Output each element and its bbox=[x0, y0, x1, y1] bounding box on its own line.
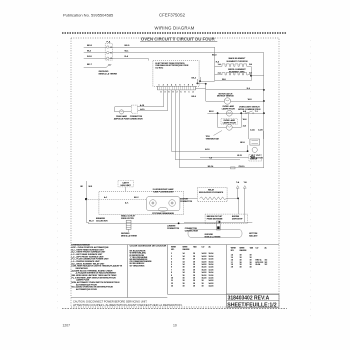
svg-text:1: 1 bbox=[189, 92, 190, 94]
svg-text:CONNECTEUR: CONNECTEUR bbox=[185, 231, 199, 233]
svg-text:2: 2 bbox=[171, 256, 172, 258]
svg-text:16: 16 bbox=[183, 267, 185, 269]
svg-text:BK-7: BK-7 bbox=[87, 64, 93, 66]
svg-text:14-18: 14-18 bbox=[202, 272, 207, 274]
svg-text:11: 11 bbox=[171, 280, 173, 282]
svg-text:18: 18 bbox=[193, 256, 195, 258]
svg-text:18: 18 bbox=[193, 253, 195, 255]
svg-text:GY GRAY/GRIS: GY GRAY/GRIS bbox=[130, 264, 145, 267]
svg-text:10-14: 10-14 bbox=[209, 256, 214, 258]
svg-text:18: 18 bbox=[193, 261, 195, 263]
svg-text:7: 7 bbox=[184, 84, 185, 86]
svg-text:LAMPE FOUR: LAMPE FOUR bbox=[222, 107, 236, 110]
svg-text:1207: 1207 bbox=[63, 323, 71, 327]
svg-text:P-A: P-A bbox=[107, 41, 111, 44]
svg-text:18: 18 bbox=[193, 272, 195, 274]
svg-text:OVEN CIRCUIT // CIRCUIT DU FOU: OVEN CIRCUIT // CIRCUIT DU FOUR bbox=[141, 36, 216, 41]
svg-text:A.T.: A.T. bbox=[125, 201, 129, 204]
svg-text:BK-5: BK-5 bbox=[125, 45, 131, 47]
svg-text:3: 3 bbox=[167, 84, 168, 86]
svg-text:10: 10 bbox=[171, 278, 173, 280]
svg-text:9: 9 bbox=[173, 92, 174, 94]
svg-text:14-18: 14-18 bbox=[202, 264, 207, 266]
svg-text:BALLAST: BALLAST bbox=[249, 234, 258, 237]
svg-text:10-14: 10-14 bbox=[209, 261, 214, 263]
svg-text:1: 1 bbox=[159, 84, 160, 86]
svg-text:14-18: 14-18 bbox=[202, 253, 207, 255]
svg-text:BAKE ELEMENT: BAKE ELEMENT bbox=[229, 57, 246, 60]
svg-text:18: 18 bbox=[240, 267, 242, 269]
svg-text:18: 18 bbox=[250, 267, 252, 269]
svg-text:14-18: 14-18 bbox=[202, 261, 207, 263]
svg-text:AL: AL bbox=[209, 246, 211, 249]
svg-text:18: 18 bbox=[193, 275, 195, 277]
svg-text:10-14: 10-14 bbox=[209, 253, 214, 255]
svg-text:12-16: 12-16 bbox=[209, 275, 214, 277]
svg-text:AL: AL bbox=[265, 247, 267, 250]
svg-text:16-18: 16-18 bbox=[202, 267, 207, 269]
svg-text:MISE A LA TERRE: MISE A LA TERRE bbox=[99, 73, 118, 76]
svg-text:5: 5 bbox=[171, 264, 172, 266]
svg-text:18: 18 bbox=[183, 286, 185, 288]
svg-text:18: 18 bbox=[183, 280, 185, 282]
svg-text:8: 8 bbox=[188, 84, 189, 86]
svg-text:14-18: 14-18 bbox=[209, 280, 214, 282]
svg-text:AMPOULE FOUR: AMPOULE FOUR bbox=[114, 118, 130, 121]
svg-text:2: 2 bbox=[177, 92, 178, 94]
svg-text:NO.: NO. bbox=[171, 249, 175, 251]
svg-text:TUBE FLUORESCENT: TUBE FLUORESCENT bbox=[153, 192, 175, 194]
svg-text:14: 14 bbox=[183, 261, 185, 263]
svg-text:HIGH LIMIT: HIGH LIMIT bbox=[121, 185, 132, 187]
svg-text:CFEF3750S2: CFEF3750S2 bbox=[159, 12, 186, 17]
svg-text:9: 9 bbox=[171, 275, 172, 277]
svg-text:THERMOSTAT: THERMOSTAT bbox=[206, 137, 220, 140]
svg-text:16-18: 16-18 bbox=[202, 275, 207, 277]
svg-text:L1: L1 bbox=[110, 47, 112, 49]
svg-text:GAUGE: GAUGE bbox=[183, 248, 191, 251]
svg-text:8: 8 bbox=[185, 92, 186, 94]
svg-text:10-14: 10-14 bbox=[209, 264, 214, 266]
svg-text:12-16: 12-16 bbox=[209, 267, 214, 269]
svg-text:10: 10 bbox=[173, 323, 177, 327]
svg-text:05.04: 05.04 bbox=[256, 264, 261, 266]
svg-text:6: 6 bbox=[169, 92, 170, 94]
svg-text:1/2: 1/2 bbox=[265, 264, 268, 266]
svg-text:4: 4 bbox=[171, 261, 172, 263]
svg-text:PRISE MOYENNE: PRISE MOYENNE bbox=[207, 219, 223, 221]
svg-text:DU EOC: DU EOC bbox=[155, 68, 163, 70]
svg-text:18: 18 bbox=[183, 283, 185, 285]
svg-text:R-10: R-10 bbox=[87, 56, 93, 58]
svg-text:BK-14: BK-14 bbox=[208, 166, 214, 168]
svg-text:LAMPE FOUR: LAMPE FOUR bbox=[223, 122, 237, 125]
svg-text:16: 16 bbox=[183, 259, 185, 261]
svg-text:ELEMENT CUISSON: ELEMENT CUISSON bbox=[227, 61, 248, 63]
svg-text:1: 1 bbox=[171, 253, 172, 255]
svg-text:16-18: 16-18 bbox=[202, 259, 207, 261]
svg-text:16: 16 bbox=[183, 269, 185, 271]
svg-text:18: 18 bbox=[193, 278, 195, 280]
svg-text:ATTENTION:COUPEZ L'ALIMENTATIO: ATTENTION:COUPEZ L'ALIMENTATION AVANT D'… bbox=[73, 303, 183, 307]
svg-text:CONNECTEUR: CONNECTEUR bbox=[129, 119, 143, 121]
svg-text:6: 6 bbox=[180, 84, 181, 86]
svg-text:318403402 REV:A: 318403402 REV:A bbox=[228, 296, 270, 302]
svg-text:14: 14 bbox=[183, 256, 185, 258]
svg-text:12-16: 12-16 bbox=[209, 269, 214, 271]
svg-text:CONNECTOR: CONNECTOR bbox=[180, 201, 193, 203]
svg-text:SHEET/FEUILLE:1/2: SHEET/FEUILLE:1/2 bbox=[227, 302, 276, 308]
svg-text:DISPOSITIF: DISPOSITIF bbox=[232, 219, 243, 221]
svg-text:10-14: 10-14 bbox=[209, 272, 214, 274]
svg-text:16-18: 16-18 bbox=[202, 269, 207, 271]
svg-text:7: 7 bbox=[171, 269, 172, 271]
svg-text:18: 18 bbox=[202, 286, 204, 288]
svg-text:MISE A LA TERRE: MISE A LA TERRE bbox=[205, 236, 222, 239]
svg-text:18: 18 bbox=[193, 259, 195, 261]
svg-text:19: 19 bbox=[231, 267, 233, 269]
svg-text:3: 3 bbox=[171, 259, 172, 261]
svg-text:18: 18 bbox=[193, 269, 195, 271]
svg-text:12-16: 12-16 bbox=[209, 259, 214, 261]
svg-text:18: 18 bbox=[193, 264, 195, 266]
svg-text:12-16: 12-16 bbox=[209, 278, 214, 280]
svg-text:5: 5 bbox=[181, 92, 182, 94]
svg-text:AUTOMATIQUE FOUR: AUTOMATIQUE FOUR bbox=[75, 288, 98, 291]
svg-text:18: 18 bbox=[193, 267, 195, 269]
svg-text:MOTEUR VERROU: MOTEUR VERROU bbox=[217, 96, 234, 98]
svg-text:14: 14 bbox=[183, 272, 185, 274]
svg-text:16: 16 bbox=[183, 278, 185, 280]
svg-text:SWITCH: SWITCH bbox=[250, 159, 258, 161]
svg-text:6: 6 bbox=[171, 267, 172, 269]
svg-text:0: 0 bbox=[161, 92, 162, 94]
svg-text:9: 9 bbox=[192, 84, 193, 86]
svg-text:COLOR CODE/CODE DE COULEUR: COLOR CODE/CODE DE COULEUR bbox=[130, 246, 167, 248]
svg-text:14-18: 14-18 bbox=[202, 256, 207, 258]
svg-text:13: 13 bbox=[171, 286, 173, 288]
svg-text:BK-8: BK-8 bbox=[87, 45, 93, 47]
svg-text:Publication No. 5995504585: Publication No. 5995504585 bbox=[63, 12, 114, 17]
svg-text:18: 18 bbox=[202, 283, 204, 285]
svg-text:2: 2 bbox=[163, 84, 164, 86]
svg-text:1-CB: 1-CB bbox=[258, 130, 263, 132]
svg-text:3: 3 bbox=[165, 92, 166, 94]
svg-text:18: 18 bbox=[193, 286, 195, 288]
svg-text:5: 5 bbox=[175, 84, 176, 86]
svg-text:1-CA: 1-CA bbox=[250, 129, 255, 132]
svg-text:GAUGE: GAUGE bbox=[240, 249, 248, 252]
svg-text:4: 4 bbox=[171, 84, 172, 86]
svg-text:14: 14 bbox=[183, 253, 185, 255]
svg-text:16-18: 16-18 bbox=[202, 278, 207, 280]
svg-text:REGULATEUR PUISSANCE: REGULATEUR PUISSANCE bbox=[199, 191, 224, 194]
svg-text:NO.: NO. bbox=[231, 250, 235, 252]
svg-text:SYSTEME DEMARRAGE: SYSTEME DEMARRAGE bbox=[152, 212, 174, 215]
svg-text:4: 4 bbox=[193, 92, 194, 94]
svg-text:OR-15: OR-15 bbox=[239, 166, 246, 168]
svg-text:18: 18 bbox=[193, 280, 195, 282]
svg-text:CONNECTOR: CONNECTOR bbox=[167, 228, 180, 230]
svg-text:WIRING DIAGRAM: WIRING DIAGRAM bbox=[154, 25, 194, 30]
svg-text:14: 14 bbox=[183, 264, 185, 266]
svg-text:8: 8 bbox=[171, 272, 172, 274]
svg-text:14-18: 14-18 bbox=[209, 286, 214, 288]
svg-text:COLLECTOR: COLLECTOR bbox=[96, 221, 108, 223]
svg-text:18: 18 bbox=[202, 280, 204, 282]
svg-text:12: 12 bbox=[171, 283, 173, 285]
svg-text:18: 18 bbox=[193, 283, 195, 285]
svg-text:PRISE PETITE: PRISE PETITE bbox=[121, 218, 135, 220]
svg-text:16: 16 bbox=[183, 275, 185, 277]
svg-text:MISE A LA TERRE: MISE A LA TERRE bbox=[121, 235, 138, 238]
svg-text:14-18: 14-18 bbox=[209, 283, 214, 285]
